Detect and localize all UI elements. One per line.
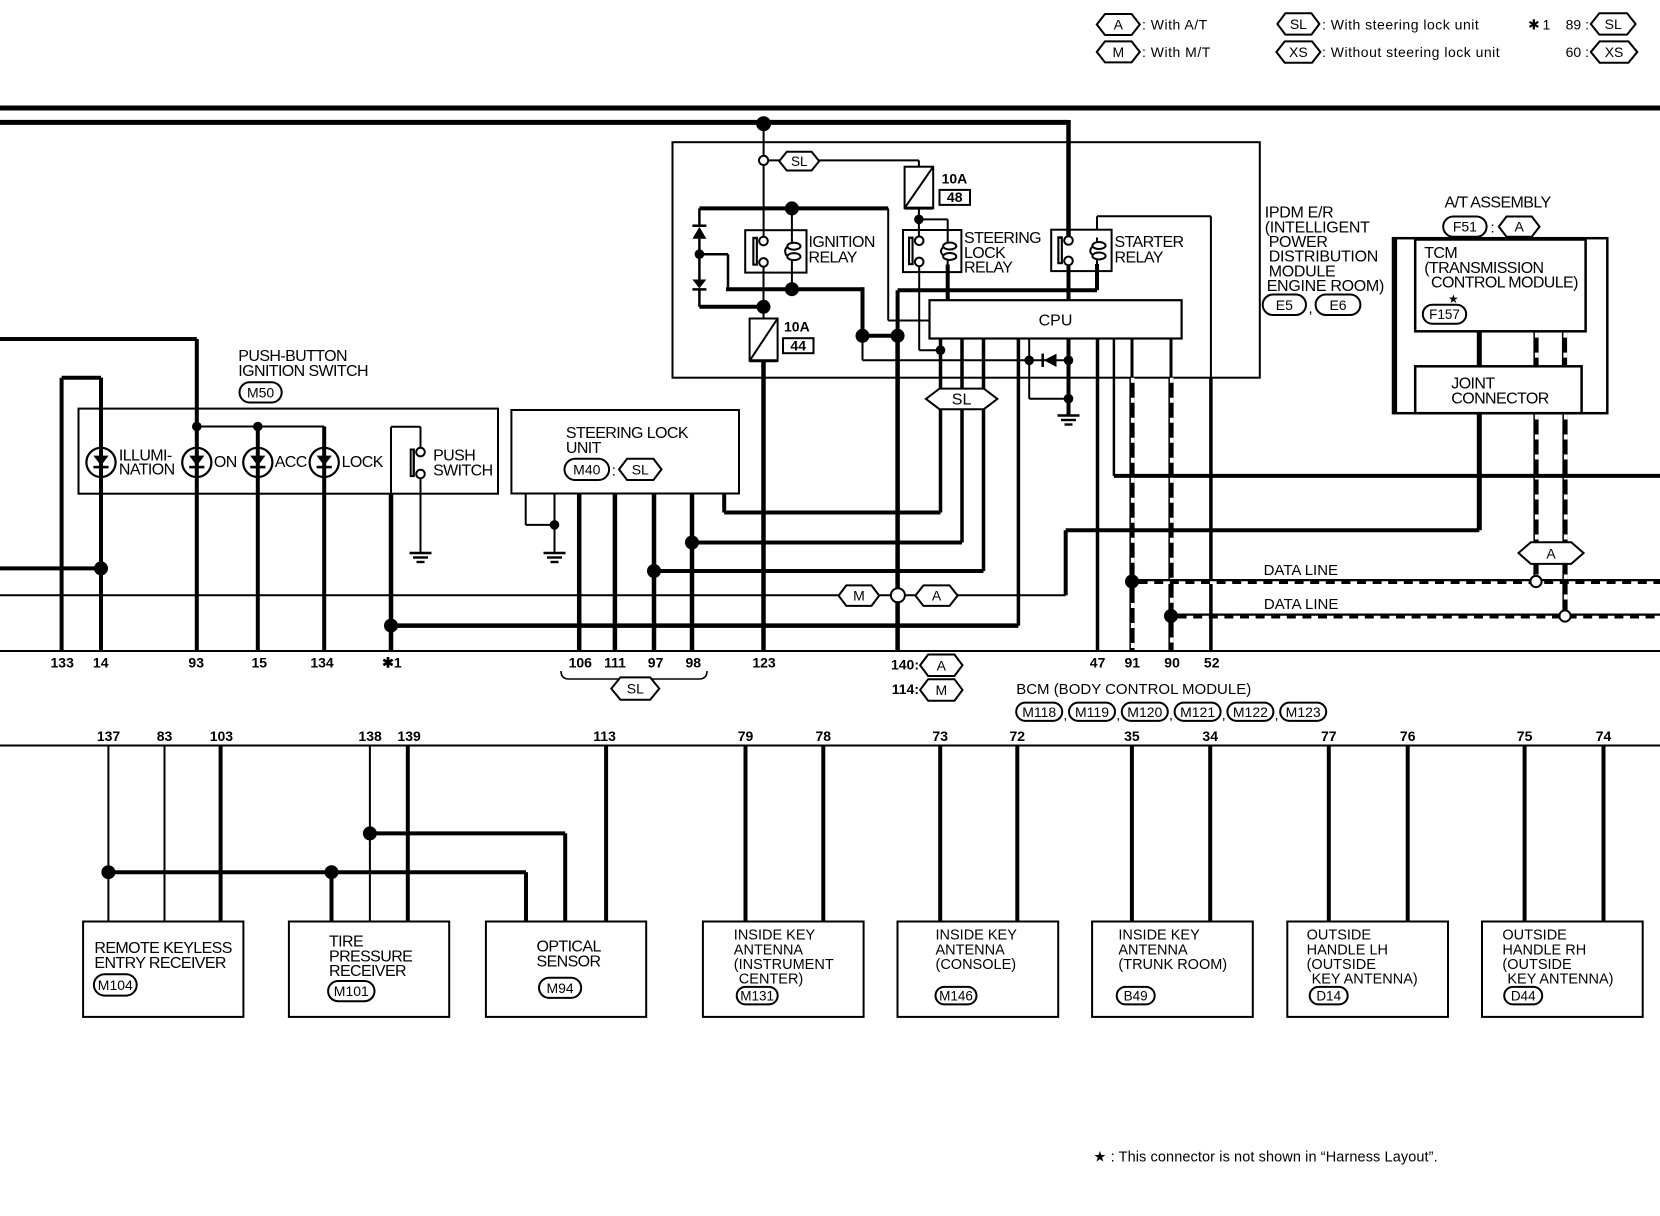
connector oval E6: [1316, 295, 1361, 316]
svg-text:M101: M101: [334, 983, 369, 999]
svg-text:15: 15: [252, 655, 268, 671]
connector circle data line 2: [1559, 610, 1570, 621]
svg-text:44: 44: [790, 337, 806, 353]
svg-text:ON: ON: [214, 454, 237, 471]
connector oval M40: [565, 459, 610, 480]
node starter coil return: [891, 329, 905, 343]
node 138 branch: [363, 826, 377, 840]
svg-text:CONTROL MODULE): CONTROL MODULE): [1431, 275, 1578, 292]
wire pin 113 drop: [604, 746, 608, 922]
svg-text:M123: M123: [1286, 704, 1321, 720]
node coil feed ignition relay: [785, 201, 799, 215]
svg-text:14: 14: [93, 655, 109, 671]
TCM pin dashed wire 1 to joint connector: [1533, 333, 1538, 365]
wire M40 right pin to CPU via SL tag: [722, 494, 726, 513]
wire pin 103 drop: [219, 746, 223, 922]
svg-text:133: 133: [51, 655, 75, 671]
wire starter relay coil bottom to link node: [1095, 264, 1099, 290]
wire fuse 44 feed rail: [699, 305, 763, 309]
A/T assembly outer box: [1393, 238, 1607, 413]
hexagon SL (steering lock option tag): [779, 152, 819, 171]
STEERING LOCK UNIT box M40: [511, 410, 739, 494]
wire *1 run to CPU: [391, 623, 1018, 628]
wire ignition relay coil return rail: [726, 287, 863, 291]
wire circle to SL hexagon to fuse 48: [768, 159, 919, 161]
wire *1 drop below M50 box: [389, 494, 394, 651]
svg-text:98: 98: [686, 655, 702, 671]
wire steering lock relay switch output: [918, 266, 920, 350]
svg-text:(INSTRUMENT: (INSTRUMENT: [734, 957, 834, 973]
node coil return ignition relay: [785, 282, 799, 296]
svg-text:113: 113: [593, 728, 616, 744]
svg-text:ENGINE ROOM): ENGINE ROOM): [1267, 278, 1384, 295]
svg-text:★ : This connector is not show: ★ : This connector is not shown in “Harn…: [1093, 1150, 1437, 1166]
node data line 1 junction: [1125, 575, 1139, 589]
legend hexagon A (With A/T): [1097, 14, 1140, 35]
wire M/A data branch line: [0, 594, 1066, 596]
fuse 48 10A: [905, 167, 934, 208]
wire DATA LINE 2 (CAN-L): [1171, 614, 1660, 619]
OUTSIDE D44 box: [1482, 922, 1643, 1017]
svg-text:138: 138: [358, 728, 382, 744]
fuse 44 10A: [750, 319, 778, 361]
TIRE PRESSURE RECEIVER box M101: [289, 922, 449, 1017]
svg-text:93: 93: [188, 655, 204, 671]
svg-text:76: 76: [1400, 728, 1416, 744]
wire pin 98 drop: [690, 494, 695, 652]
boxed label 48: [940, 190, 971, 205]
node fuse 44 feed: [757, 300, 771, 314]
svg-text:89 :: 89 :: [1566, 17, 1589, 33]
svg-text:,: ,: [1063, 707, 1067, 723]
svg-text:,: ,: [1116, 707, 1120, 723]
svg-text:RELAY: RELAY: [1115, 250, 1164, 267]
wire CPU ground drop: [1067, 339, 1071, 416]
svg-text:10A: 10A: [784, 319, 810, 335]
wire ignition relay coil bottom: [791, 266, 793, 290]
connector circle data line 1: [1530, 576, 1541, 587]
svg-text:M118: M118: [1022, 704, 1056, 720]
svg-text:91: 91: [1125, 655, 1141, 671]
wire pins into D44 box: [1523, 746, 1527, 922]
CPU box: [930, 300, 1182, 338]
connector oval M146: [936, 987, 977, 1005]
svg-text:52: 52: [1204, 655, 1220, 671]
svg-text:M119: M119: [1075, 704, 1109, 720]
wire starter relay coil top loop via IPDM right side: [1096, 216, 1098, 230]
node diode rail right: [1064, 356, 1074, 366]
wire node to CPU diode rail (thin): [862, 336, 864, 361]
node ACC LED feed: [253, 422, 263, 432]
ignition relay switch contacts: [752, 237, 768, 267]
svg-text:SWITCH: SWITCH: [433, 462, 493, 479]
svg-text:73: 73: [932, 728, 948, 744]
legend hexagon M (With M/T): [1097, 41, 1140, 62]
wire between diodes: [698, 239, 701, 280]
svg-text:: With steering lock unit: : With steering lock unit: [1322, 17, 1479, 33]
svg-text:✱1: ✱1: [382, 655, 402, 671]
hexagon SL wide (CPU steering lock pins): [926, 389, 998, 410]
svg-text::: :: [1491, 220, 1495, 237]
svg-text:75: 75: [1517, 728, 1533, 744]
svg-text:INSIDE KEY: INSIDE KEY: [734, 928, 816, 944]
wire thick top rail to ignition relay coil and right drop: [699, 206, 888, 210]
wire pin 138 drop: [369, 746, 371, 922]
svg-text:F51: F51: [1453, 219, 1477, 235]
svg-text:A: A: [937, 657, 947, 673]
svg-text:123: 123: [752, 655, 776, 671]
svg-text:M120: M120: [1127, 704, 1162, 720]
connector oval D44: [1504, 987, 1542, 1005]
wire 133/14 bridge loop: [60, 378, 64, 651]
wire pin 83 drop: [164, 746, 166, 922]
svg-text:E5: E5: [1276, 297, 1293, 313]
hexagon SL under brace: [611, 677, 659, 699]
svg-text:INSIDE KEY: INSIDE KEY: [1118, 928, 1200, 944]
svg-text:140:: 140:: [891, 657, 919, 673]
connector oval B49: [1117, 987, 1155, 1005]
svg-text:103: 103: [210, 728, 234, 744]
svg-text:111: 111: [604, 655, 626, 671]
node below fuse 48: [914, 215, 924, 225]
wire fuse node to steering lock relay coil: [918, 218, 948, 220]
hexagon M on data branch: [839, 585, 880, 606]
OPTICAL SENSOR box M94: [486, 922, 646, 1017]
wire CPU output to A/T rail: [1113, 339, 1116, 476]
wire joint connector solid output down and left: [1477, 413, 1482, 530]
node ON LED feed: [192, 422, 202, 432]
diode D3 (points left) on ground clamp: [1029, 359, 1068, 361]
starter relay switch contacts: [1057, 236, 1072, 265]
connector oval M104: [94, 974, 137, 995]
svg-text:134: 134: [310, 655, 334, 671]
wire 97 branch to CPU: [654, 569, 984, 573]
svg-text:E6: E6: [1329, 297, 1346, 313]
svg-text:RECEIVER: RECEIVER: [329, 963, 406, 980]
svg-text:OUTSIDE: OUTSIDE: [1307, 928, 1372, 944]
svg-text:SENSOR: SENSOR: [537, 953, 601, 970]
wire 137 branch rail to receivers: [108, 870, 526, 874]
wire circle to ignition relay switch: [763, 165, 765, 237]
TCM pin wire solid to joint connector: [1477, 331, 1482, 366]
connector oval M101: [328, 981, 374, 1001]
wire coil return rail drop: [861, 287, 865, 336]
svg-text:47: 47: [1090, 655, 1106, 671]
svg-text:XS: XS: [1289, 44, 1308, 60]
connector oval M50: [240, 382, 282, 402]
brace under SL pins 106-98: [561, 671, 707, 684]
svg-text:KEY ANTENNA): KEY ANTENNA): [1312, 972, 1418, 988]
svg-text:INSIDE KEY: INSIDE KEY: [936, 928, 1018, 944]
svg-text:RELAY: RELAY: [964, 260, 1013, 277]
TCM box: [1415, 240, 1585, 332]
LED ON: [182, 448, 211, 477]
wire ACC LED drop to pin 15: [256, 427, 260, 652]
wire diode bypass loop: [1028, 360, 1030, 398]
svg-text:F157: F157: [1429, 307, 1460, 322]
svg-text:,: ,: [1309, 300, 1313, 317]
svg-text:35: 35: [1124, 728, 1140, 744]
svg-text:114:: 114:: [892, 681, 919, 697]
wire M40 ground pin 2: [554, 494, 556, 554]
ground symbol IPDM CPU: [1058, 416, 1080, 425]
LED LOCK: [310, 448, 339, 477]
wire 138 branch rail to optical sensor: [370, 831, 565, 835]
svg-text:139: 139: [397, 728, 421, 744]
OUTSIDE D14 box: [1287, 922, 1448, 1017]
wire LOCK LED drop to pin 134: [322, 427, 326, 652]
connector circle (SL branch point): [759, 156, 768, 165]
wire CPU to pin 47: [1096, 339, 1100, 652]
svg-text:ANTENNA: ANTENNA: [734, 942, 804, 958]
steering lock relay coil: [941, 238, 956, 265]
JOINT CONNECTOR box: [1415, 366, 1581, 413]
svg-text:M50: M50: [247, 384, 274, 400]
hexagon A above data lines: [1519, 542, 1584, 564]
wire 140/114 pin drop: [895, 336, 900, 651]
wire ON LED drop to pin 93: [195, 427, 199, 652]
wire top feed to M50 (from left): [0, 337, 197, 341]
wire pins into B49 box: [1130, 746, 1134, 922]
node pin 14 junction: [94, 561, 108, 575]
svg-text:BCM (BODY CONTROL MODULE): BCM (BODY CONTROL MODULE): [1016, 681, 1251, 698]
svg-text:137: 137: [97, 728, 121, 744]
wire ILLUMINATION LED drop to bus: [99, 378, 103, 651]
CPU pin drop to diode rail: [1028, 339, 1030, 361]
svg-text:(TRUNK ROOM): (TRUNK ROOM): [1118, 957, 1227, 973]
svg-text:LOCK: LOCK: [342, 454, 384, 471]
legend hexagon SL (With steering lock unit): [1277, 13, 1319, 34]
wire pin 137 drop: [107, 746, 109, 922]
svg-text:A: A: [1114, 17, 1124, 33]
REMOTE KEYLESS ENTRY RECEIVER box M104: [83, 922, 243, 1017]
LED ACC: [243, 448, 272, 477]
push switch symbol: [410, 448, 425, 479]
wire M40 ground pin 1: [525, 494, 527, 525]
wire fuse 48 to steering lock relay: [918, 208, 920, 236]
wire pins into M146 box: [938, 746, 942, 922]
wire diode D2 to fuse 44 rail: [698, 289, 701, 306]
svg-text:IGNITION SWITCH: IGNITION SWITCH: [238, 363, 368, 380]
svg-text:M104: M104: [98, 977, 133, 993]
connector circle on data branch: [891, 588, 905, 602]
wire starter relay switch to CPU: [1067, 265, 1071, 301]
svg-text:A: A: [1546, 546, 1556, 562]
node data line 2 junction: [1164, 609, 1178, 623]
wire branch into optical sensor: [524, 872, 528, 921]
connector oval M94: [539, 978, 581, 998]
svg-text:DATA LINE: DATA LINE: [1264, 596, 1338, 613]
relay K3 STARTER RELAY box: [1051, 230, 1111, 271]
node M40 ground join: [550, 520, 560, 530]
svg-text:M: M: [1112, 44, 1124, 60]
svg-text:HANDLE RH: HANDLE RH: [1502, 942, 1586, 958]
svg-text:ACC: ACC: [275, 454, 307, 471]
steering lock relay switch contacts: [908, 237, 924, 267]
relay K1 IGNITION RELAY box: [745, 230, 806, 272]
svg-text:DATA LINE: DATA LINE: [1264, 562, 1338, 579]
wire power bus line 2 (ignition feed to starter relay): [0, 120, 1069, 125]
diode D1 (upper, cathode up) chain from rail: [698, 208, 701, 226]
svg-text:: Without steering lock unit: : Without steering lock unit: [1322, 44, 1500, 60]
svg-text:(OUTSIDE: (OUTSIDE: [1502, 957, 1572, 973]
svg-text:: With A/T: : With A/T: [1142, 17, 1208, 33]
connector oval F157: [1423, 305, 1466, 324]
svg-text:CONNECTOR: CONNECTOR: [1451, 390, 1548, 407]
TCM pin dashed wire 2 to joint connector: [1562, 333, 1567, 365]
svg-text:ANTENNA: ANTENNA: [936, 942, 1006, 958]
svg-text:CPU: CPU: [1039, 313, 1073, 330]
wire DATA LINE 1 (CAN-H): [1132, 579, 1660, 584]
PUSH-BUTTON IGNITION SWITCH box M50: [79, 409, 499, 494]
node coil return / starter link: [856, 329, 870, 343]
svg-text:UNIT: UNIT: [566, 440, 602, 457]
svg-text:SL: SL: [1605, 16, 1622, 32]
LED ILLUMINATION: [86, 448, 115, 477]
svg-text:KEY ANTENNA): KEY ANTENNA): [1507, 972, 1613, 988]
svg-text:ENTRY RECEIVER: ENTRY RECEIVER: [94, 955, 226, 972]
svg-text:SL: SL: [1290, 16, 1307, 32]
svg-text:M146: M146: [939, 989, 973, 1004]
svg-text:72: 72: [1010, 728, 1026, 744]
svg-text:A: A: [1514, 219, 1524, 235]
wire M40 right pin riser to CPU: [939, 339, 943, 513]
wire left rail to pin 14 node: [0, 566, 101, 570]
node diode rail left: [1024, 356, 1034, 366]
ignition relay coil: [785, 237, 800, 265]
BCM lower edge bus line: [0, 745, 1660, 747]
wire starter relay switch feed drop: [1066, 120, 1071, 237]
svg-text:M122: M122: [1233, 704, 1268, 720]
wire from bus junction to connector circle: [763, 124, 765, 156]
wire push switch feed *1: [390, 427, 392, 494]
wire IPDM to pin 52 (starter coil loop): [1209, 378, 1213, 651]
node pin 97 branch: [647, 564, 661, 578]
svg-text:HANDLE LH: HANDLE LH: [1307, 942, 1388, 958]
node between diodes: [695, 249, 705, 259]
IPDM E/R enclosure box E5/E6: [673, 142, 1260, 378]
wire pin 97 drop: [652, 494, 657, 652]
wire power bus line 1 (battery): [0, 106, 1660, 111]
svg-text:IGNITION: IGNITION: [809, 234, 875, 251]
INSIDE KEY B49 box: [1092, 922, 1253, 1017]
node *1 junction: [384, 619, 398, 633]
svg-text:M: M: [853, 588, 865, 604]
svg-text:✱ 1: ✱ 1: [1528, 17, 1551, 33]
svg-text:M94: M94: [546, 980, 573, 996]
svg-text:STARTER: STARTER: [1115, 234, 1184, 251]
svg-text:90: 90: [1164, 655, 1180, 671]
node junction on power bus line 2: [756, 116, 771, 131]
svg-text:60 :: 60 :: [1566, 44, 1589, 60]
svg-text:M131: M131: [740, 989, 774, 1004]
connector oval E5: [1263, 295, 1306, 316]
svg-text:ANTENNA: ANTENNA: [1118, 942, 1188, 958]
boxed label 44: [783, 338, 814, 353]
hexagon SL for M40: [619, 459, 662, 480]
wire CPU dashed data line to pin 91: [1131, 339, 1134, 378]
svg-text:A: A: [932, 588, 942, 604]
svg-text:SL: SL: [627, 681, 644, 697]
wire pins into D14 box: [1327, 746, 1331, 922]
svg-text:74: 74: [1596, 728, 1612, 744]
svg-text:CENTER): CENTER): [739, 972, 803, 988]
node steering relay output on CPU line: [936, 345, 946, 355]
wire internal LED feed rail: [197, 426, 324, 428]
wire branch into tire pressure receiver: [330, 872, 334, 921]
node pin 98 branch: [685, 536, 699, 550]
svg-text:D14: D14: [1316, 989, 1341, 1004]
connector oval F51 with hexagon A: [1443, 217, 1486, 237]
connector oval M131: [737, 987, 778, 1005]
svg-text:78: 78: [816, 728, 832, 744]
svg-text:79: 79: [738, 728, 754, 744]
svg-text:M40: M40: [573, 461, 600, 477]
svg-text:SL: SL: [632, 461, 649, 477]
wire push switch to ground: [420, 478, 422, 553]
svg-text:97: 97: [648, 655, 664, 671]
svg-text:: With M/T: : With M/T: [1142, 44, 1211, 60]
INSIDE KEY M131 box: [703, 922, 864, 1017]
connector oval D14: [1310, 987, 1348, 1005]
wire A-line riser to data branch: [1064, 530, 1068, 595]
legend hexagon XS (Without steering lock unit): [1276, 41, 1320, 62]
node tire pressure feed: [325, 865, 339, 879]
starter relay coil: [1090, 238, 1105, 265]
svg-text:,: ,: [1275, 707, 1279, 723]
wire link between return nodes: [863, 334, 898, 338]
svg-text:48: 48: [947, 189, 963, 205]
wire 98 branch to CPU: [692, 541, 962, 545]
svg-text::: :: [612, 463, 616, 480]
dashed wire joint connector to data line 2: [1562, 415, 1567, 615]
ground symbol steering lock unit: [544, 553, 566, 562]
svg-text:10A: 10A: [942, 171, 968, 187]
relay K2 STEERING LOCK RELAY box: [903, 230, 961, 272]
wire rail right drop to CPU left pin: [887, 208, 889, 320]
wire ignition relay coil top: [791, 208, 793, 237]
wire CPU dashed data line to pin 90: [1170, 339, 1173, 378]
BCM connector ovals M118-M123: [1016, 703, 1062, 721]
svg-text:,: ,: [1169, 707, 1173, 723]
svg-text:77: 77: [1321, 728, 1337, 744]
wire pin 111 drop: [613, 494, 618, 652]
svg-text:(CONSOLE): (CONSOLE): [936, 957, 1017, 973]
svg-text:A/T ASSEMBLY: A/T ASSEMBLY: [1445, 195, 1552, 212]
ground symbol push switch: [410, 553, 432, 562]
svg-text:SL: SL: [791, 154, 808, 169]
diode D2 (lower, cathode down): [692, 280, 706, 289]
svg-text:B49: B49: [1124, 989, 1148, 1004]
wire pins into M131 box: [744, 746, 748, 922]
wire mid-diode node to coil return rail: [699, 253, 728, 256]
BCM upper edge bus line: [0, 650, 1660, 652]
svg-text:34: 34: [1202, 728, 1218, 744]
svg-text:OUTSIDE: OUTSIDE: [1502, 928, 1567, 944]
svg-text:D44: D44: [1511, 989, 1536, 1004]
svg-text:(OUTSIDE: (OUTSIDE: [1307, 957, 1377, 973]
hexagon A on data branch: [915, 585, 957, 606]
svg-text:NATION: NATION: [119, 461, 175, 478]
svg-text:SL: SL: [952, 392, 972, 409]
svg-text:83: 83: [157, 728, 173, 744]
wire pin 139 drop: [406, 746, 410, 922]
svg-text:M: M: [935, 682, 947, 698]
svg-text:106: 106: [569, 655, 593, 671]
wire pin 106 drop: [577, 494, 582, 652]
node bypass to ground line: [1064, 394, 1074, 404]
node 137 branch: [101, 865, 115, 879]
